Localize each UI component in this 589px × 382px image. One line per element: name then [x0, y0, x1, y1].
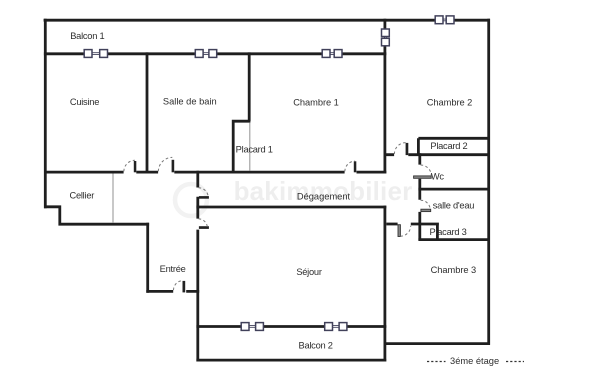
svg-text:Balcon 2: Balcon 2 [299, 341, 333, 351]
svg-text:salle d'eau: salle d'eau [433, 201, 474, 211]
svg-text:Chambre 1: Chambre 1 [293, 98, 339, 108]
svg-text:Séjour: Séjour [296, 267, 322, 277]
svg-text:3éme étage: 3éme étage [450, 356, 499, 366]
svg-text:Salle de bain: Salle de bain [163, 97, 217, 107]
svg-text:Dégagement: Dégagement [297, 192, 351, 202]
svg-text:Wc: Wc [431, 171, 445, 181]
svg-text:Cellier: Cellier [69, 190, 94, 200]
svg-text:Cuisine: Cuisine [70, 97, 99, 107]
svg-text:Chambre 3: Chambre 3 [431, 265, 477, 275]
svg-text:Placard 2: Placard 2 [430, 141, 467, 151]
svg-text:Entrée: Entrée [160, 264, 186, 274]
svg-text:Placard 1: Placard 1 [236, 144, 273, 154]
svg-text:Chambre 2: Chambre 2 [427, 97, 473, 107]
svg-text:Balcon 1: Balcon 1 [70, 31, 104, 41]
svg-text:Placard 3: Placard 3 [429, 227, 466, 237]
